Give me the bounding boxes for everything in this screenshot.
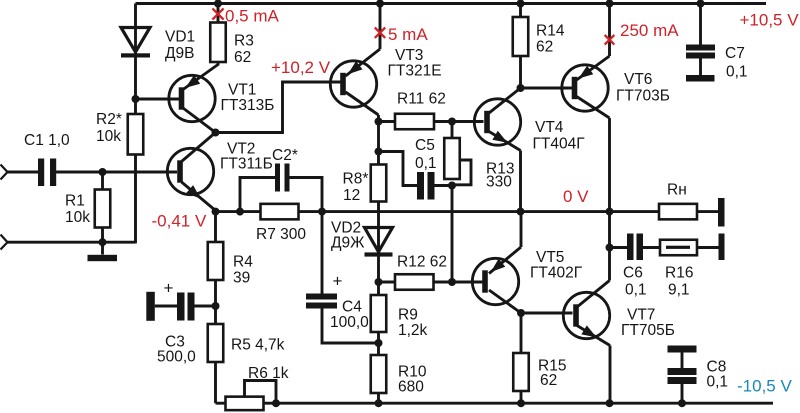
wire: junction to R1: [101, 172, 104, 190]
label VT1: [221, 82, 275, 115]
node: output C6 branch junction dot: [606, 244, 614, 252]
node: VT3 collector junction dot: [375, 118, 383, 126]
VT3 emitter line: [346, 4, 381, 77]
wire: VT7 base wire: [521, 312, 573, 315]
label R6: [248, 365, 289, 382]
wire: R10 to bottom rail: [377, 393, 380, 403]
wire: Rн to terminal: [697, 210, 718, 213]
label C8: [707, 359, 729, 391]
VT7 emitter arrow: [581, 325, 596, 337]
label 250 mA: [620, 21, 679, 40]
resistor R3: [210, 23, 226, 63]
load resistor Rн: [659, 204, 697, 220]
wire: node to R12: [379, 281, 396, 284]
measuring point x (0.5 mA): [212, 8, 223, 19]
VT6 emitter line: [577, 4, 610, 81]
node: VD2/R12/R9 junction dot: [375, 278, 383, 286]
resistor R8*: [371, 165, 387, 202]
svg-text:10k: 10k: [65, 209, 90, 226]
node: VT5 base junction dot: [448, 278, 456, 286]
svg-text:12: 12: [343, 187, 360, 204]
svg-text:VT4: VT4: [535, 119, 564, 136]
capacitor C3: [177, 293, 195, 321]
svg-text:VT7: VT7: [627, 306, 655, 323]
resistor R4: [208, 242, 224, 280]
label R7: [256, 226, 306, 243]
svg-text:R3: R3: [234, 32, 254, 49]
VT7 emitter line: [577, 326, 610, 404]
svg-text:0,1: 0,1: [415, 155, 437, 172]
wire: C2 branch: [240, 178, 322, 212]
VT1 emitter arrow: [185, 75, 200, 88]
svg-text:0,5 mA: 0,5 mA: [225, 7, 280, 26]
VT4 collector line: [489, 88, 521, 113]
VT3 emitter arrow: [348, 61, 363, 74]
VT1 collector line: [183, 108, 216, 133]
svg-text:R16: R16: [665, 264, 693, 281]
resistor R2*: [128, 114, 144, 155]
ground (C3 return): [146, 292, 155, 321]
svg-text:39: 39: [233, 269, 250, 286]
svg-text:500,0: 500,0: [157, 348, 196, 365]
resistor R14: [513, 17, 529, 56]
VT5 collector line: [489, 290, 521, 313]
VT7 collector line: [577, 281, 610, 308]
label R9: [398, 306, 428, 339]
resistor R15: [513, 353, 529, 391]
wire: VT5 collector node to R15: [520, 313, 523, 353]
svg-text:R5 4,7k: R5 4,7k: [231, 336, 285, 353]
label R13: [486, 160, 514, 190]
wire: rail to R3: [217, 4, 220, 23]
svg-text:R2*: R2*: [96, 111, 122, 128]
wire: R3 to VT1 emitter: [217, 62, 220, 66]
label VD1: [165, 28, 195, 62]
wire: R13 bottom down to VT5 base node: [451, 186, 454, 283]
svg-text:10k: 10k: [96, 128, 121, 145]
VT2 emitter arrow: [186, 185, 200, 199]
ground (C7): [686, 75, 715, 82]
wire: C4 to R9/R10 node: [322, 309, 379, 344]
svg-text:Д9Ж: Д9Ж: [331, 235, 365, 252]
wire: R15 to bottom rail: [520, 391, 523, 403]
label Rн: [667, 182, 687, 199]
VT2 collector line: [182, 133, 216, 162]
svg-text:VT5: VT5: [536, 249, 564, 266]
transistor VT3: [330, 61, 376, 107]
label R8*: [343, 170, 369, 204]
resistor R12: [395, 274, 434, 290]
resistor R10: [371, 355, 387, 393]
input terminal 1 (arrow): [1, 165, 8, 180]
wire: C6 to R16: [643, 246, 660, 249]
capacitor C4 polarity +: [333, 271, 343, 290]
wire: R8 to VD2: [377, 202, 380, 229]
svg-text:R9: R9: [398, 306, 418, 323]
wire: VT3 collector to R11: [379, 120, 396, 123]
node: VT5 collector junction dot: [517, 309, 525, 317]
label -10,5 V: [737, 376, 792, 395]
VT2 emitter line: [182, 182, 216, 212]
svg-text:Д9В: Д9В: [165, 45, 194, 62]
wire: collectors node to VT3 base: [216, 82, 342, 133]
measuring point x (5 mA): [375, 28, 385, 38]
resistor R11: [395, 114, 434, 130]
wire: C8 to bottom rail: [681, 384, 684, 403]
wire: VT1 base wire: [136, 98, 180, 101]
label R12: [397, 254, 447, 271]
label VT6: [616, 71, 670, 104]
VT4 base bar: [484, 111, 490, 133]
label C3: [157, 333, 196, 365]
VT1 base bar: [179, 87, 185, 109]
wire: VD1 to R2: [134, 99, 137, 114]
node: C5 branch junction dot: [375, 148, 383, 156]
capacitor C1: [38, 159, 56, 187]
label +10,5 V: [740, 11, 800, 30]
capacitor C3 polarity +: [164, 278, 174, 297]
wire: ground to C3: [155, 305, 177, 308]
resistor R7: [261, 204, 299, 220]
svg-text:250 mA: 250 mA: [620, 21, 679, 40]
svg-text:5 mA: 5 mA: [388, 25, 428, 44]
wire: 0V bias line (VT2 emitter to output): [216, 210, 660, 213]
svg-text:1,2k: 1,2k: [398, 322, 428, 339]
label +10,2 V: [271, 58, 331, 77]
svg-text:+10,5 V: +10,5 V: [740, 11, 800, 30]
svg-text:-10,5 V: -10,5 V: [737, 376, 792, 395]
capacitor C8: [668, 368, 697, 384]
wire: C5 to R13 bottom node: [435, 184, 453, 187]
capacitor C7: [686, 45, 715, 59]
label R10: [398, 363, 427, 395]
node: input junction dot: [99, 168, 107, 176]
label C2*: [272, 147, 298, 164]
label -0,41 V: [152, 211, 207, 230]
VT2 base bar: [177, 160, 183, 182]
wire: C1 to VT2 base node: [56, 171, 177, 174]
VT7 base bar: [573, 304, 579, 326]
label 5 mA: [388, 25, 428, 44]
label 0 V: [563, 187, 589, 206]
svg-text:330: 330: [486, 173, 512, 190]
ground terminal (R16): [719, 234, 725, 261]
svg-text:C7: C7: [725, 45, 745, 62]
node: VT1 base junction dot: [132, 95, 140, 103]
capacitor C6: [627, 234, 643, 261]
VT1 emitter line: [183, 65, 218, 90]
transistor VT5: [472, 258, 518, 304]
wire: C2 node down to C4: [321, 212, 324, 294]
label R4: [233, 253, 253, 286]
wire: input 1 to C1: [7, 171, 38, 174]
node: C3 junction dot: [212, 302, 220, 310]
wire: C5 left branch: [379, 152, 418, 186]
measuring point x (250 mA): [605, 35, 615, 45]
svg-text:ГТ313Б: ГТ313Б: [221, 97, 275, 114]
svg-text:C6: C6: [623, 264, 643, 281]
svg-text:R4: R4: [233, 253, 253, 270]
wire: input 2 to R2 bottom: [7, 155, 136, 244]
node: C4 junction dot: [375, 339, 383, 347]
transistor VT1: [169, 75, 215, 121]
svg-text:R14: R14: [536, 22, 565, 39]
svg-text:C2*: C2*: [272, 147, 298, 164]
node: VT6 base junction dot: [517, 84, 525, 92]
svg-text:R12 62: R12 62: [397, 254, 447, 271]
svg-text:0 V: 0 V: [563, 187, 589, 206]
label C1 value: [24, 132, 70, 149]
capacitor C4: [306, 294, 337, 309]
svg-text:ГТ404Г: ГТ404Г: [533, 135, 586, 152]
VT5 base bar: [482, 270, 488, 292]
svg-text:-0,41 V: -0,41 V: [152, 211, 207, 230]
transistor VT2: [167, 148, 213, 194]
ground (input common): [88, 255, 118, 261]
svg-text:62: 62: [540, 372, 557, 389]
svg-text:+: +: [333, 271, 343, 290]
transistor VT4: [474, 99, 520, 145]
svg-text:VT1: VT1: [228, 82, 256, 99]
label R14: [536, 22, 565, 55]
resistor R5: [208, 324, 224, 362]
resistor R1: [95, 190, 111, 228]
svg-text:R1: R1: [65, 193, 85, 210]
label R2*: [96, 111, 122, 145]
wire: R9 to R10: [377, 332, 380, 355]
wire: VT3 collector to R8: [377, 122, 380, 165]
capacitor C5: [417, 172, 435, 200]
label C5: [415, 137, 437, 172]
svg-text:R6 1k: R6 1k: [248, 365, 289, 382]
VT5 emitter line: [489, 212, 521, 274]
svg-text:R8*: R8*: [343, 170, 369, 187]
wire: R4 to C3 node: [214, 280, 217, 324]
resistor R16: [660, 240, 697, 256]
svg-text:ГТ402Г: ГТ402Г: [530, 265, 583, 282]
svg-text:C1 1,0: C1 1,0: [24, 132, 70, 149]
wire: +10.5V top supply rail: [136, 2, 767, 5]
svg-text:VD1: VD1: [165, 28, 195, 45]
svg-text:R11 62: R11 62: [397, 91, 446, 108]
svg-text:62: 62: [536, 38, 553, 55]
label C7: [725, 45, 748, 81]
svg-text:0,1: 0,1: [707, 373, 729, 390]
label 0,5 mA: [225, 7, 280, 26]
wire: VT4 base node to R13: [451, 122, 454, 139]
wire: rail to C7: [699, 4, 702, 45]
VT4 emitter line: [489, 132, 521, 212]
capacitor C2*: [275, 164, 290, 192]
svg-text:0,1: 0,1: [726, 64, 748, 81]
svg-text:VT6: VT6: [624, 71, 652, 88]
VT5 emitter arrow: [491, 259, 506, 272]
node: ground junction dot: [99, 238, 107, 246]
svg-text:ГТ321Е: ГТ321Е: [388, 63, 442, 80]
wire: rail to R14: [519, 4, 522, 18]
VT6 collector line: [577, 97, 610, 281]
svg-text:Rн: Rн: [667, 182, 687, 199]
resistor R6 (trimmer): [226, 381, 277, 411]
wire: R11 to VT4 base: [434, 120, 484, 123]
wire: -10.5V bottom supply rail: [216, 402, 774, 405]
wire: R5 to R6: [214, 362, 217, 403]
svg-text:9,1: 9,1: [668, 281, 690, 298]
wire: 0V node down to R4: [214, 212, 217, 242]
label VT4: [533, 119, 586, 153]
node: top rail junction dots: [214, 0, 705, 8]
transistor VT6: [562, 65, 608, 111]
wire: ground to C8: [681, 353, 684, 369]
wire: rail to VD1: [134, 4, 137, 29]
resistor R13 (adjustable): [444, 138, 471, 185]
VT3 collector line: [346, 92, 379, 122]
VT4 emitter arrow: [492, 131, 507, 143]
label C6: [623, 264, 647, 298]
wire: R16 to terminal: [697, 246, 719, 249]
svg-text:C5: C5: [415, 137, 435, 154]
svg-text:100,0: 100,0: [330, 314, 369, 331]
wire: R1 to ground node: [101, 228, 104, 255]
svg-text:62: 62: [234, 49, 251, 66]
label C4: [330, 299, 369, 331]
label VT7: [621, 306, 675, 339]
svg-text:+: +: [164, 278, 174, 297]
wire: output node to C6: [610, 246, 628, 249]
wire: C7 to ground: [699, 59, 702, 76]
label R11: [397, 91, 446, 108]
diode VD2: [365, 227, 393, 295]
wire: R12 to VT5 base: [434, 281, 484, 284]
resistor R9: [371, 295, 387, 332]
label R5: [231, 336, 285, 353]
label VT3: [388, 47, 442, 79]
label R16: [665, 264, 693, 298]
svg-text:ГТ311Б: ГТ311Б: [220, 156, 273, 173]
label R15: [538, 358, 566, 390]
label R3: [234, 32, 254, 66]
svg-text:0,1: 0,1: [625, 281, 647, 298]
node: bottom rail junction dots: [272, 399, 686, 407]
wire: C3 to R4/R5 node: [195, 305, 216, 308]
node: VT4 base junction dot: [448, 118, 456, 126]
label VD2: [331, 220, 365, 252]
svg-text:+10,2 V: +10,2 V: [271, 58, 331, 77]
node: 0V line junction dots: [212, 208, 614, 216]
svg-text:ГТ703Б: ГТ703Б: [616, 88, 670, 105]
input terminal 2 (arrow): [1, 235, 8, 250]
ground (C8): [668, 346, 697, 353]
svg-text:ГТ705Б: ГТ705Б: [621, 322, 675, 339]
ground terminal (Rн): [718, 198, 725, 227]
diode VD1: [121, 28, 150, 100]
svg-text:R7 300: R7 300: [256, 226, 306, 243]
VT6 base bar: [572, 77, 578, 99]
node: VT1/VT2 collectors junction dot: [212, 129, 220, 137]
label R1: [65, 193, 90, 226]
label VT2: [220, 140, 273, 172]
wire: R14 to VT6 base node: [519, 56, 522, 88]
VT6 emitter arrow: [579, 66, 594, 79]
wire: VT6 base wire: [521, 87, 573, 90]
transistor VT7: [563, 292, 609, 338]
node: R13 bottom junction dot: [448, 182, 456, 190]
VT3 base bar: [340, 73, 346, 95]
svg-text:680: 680: [398, 379, 424, 396]
label VT5: [530, 249, 583, 282]
